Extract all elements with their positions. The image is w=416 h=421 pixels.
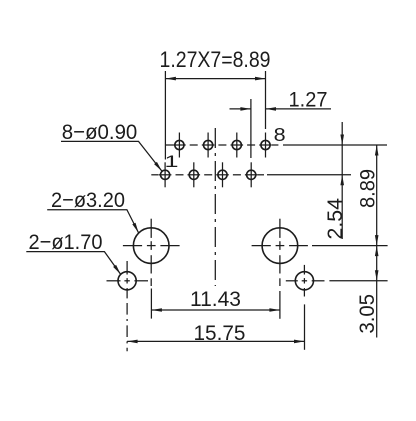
svg-text:15.75: 15.75 [194,321,246,345]
arrowhead dim1 right [255,77,266,81]
mount hole S1 small circle left [107,261,149,298]
pin hole P7 bottom row [245,162,258,187]
extension line pin8 up [265,71,267,129]
pin hole P3 bottom row [188,162,201,187]
pin hole P1 bottom row [159,162,172,187]
dimension 3.05 line [376,246,378,338]
pin hole P8 top row [259,133,272,158]
svg-text:2−ø3.20: 2−ø3.20 [51,188,125,212]
arrowhead 1.27 right (points left) [266,107,277,111]
arrowhead 15.75 right [294,340,305,344]
arrowhead 8.89 bottom (points down) [375,235,379,246]
svg-text:2−ø1.70: 2−ø1.70 [29,230,103,254]
leader 8-dia0.90 [61,141,162,171]
dimension 1.27 line left tail [230,108,251,110]
pin hole P2 top row [173,133,186,158]
arrowhead 2.54 bottom (points up) [340,175,344,186]
svg-text:8: 8 [274,124,286,145]
arrowhead 15.75 left [127,340,138,344]
mount hole B1 big circle left [123,219,180,286]
svg-text:1.27X7=8.89: 1.27X7=8.89 [160,47,271,72]
extension line S2 down [304,304,306,349]
leader 2-dia3.20 [47,210,138,233]
svg-text:3.05: 3.05 [355,294,379,334]
arrowhead 3.05 top (points up) [375,246,379,257]
bottom row centerline dashes [151,174,264,176]
dimension 8.89 line [376,145,378,246]
arrowhead 8.89 top (points up) [375,145,379,156]
leader 2-dia1.70 [26,252,120,275]
extension line big circle row right [312,245,388,247]
S1 centerline extension down [126,303,128,351]
arrowhead leader pin1 [154,162,162,171]
svg-text:1: 1 [165,152,179,171]
arrowhead 1.27 left (points right) [240,107,251,111]
arrowhead 2.54 top (points down) [340,135,344,146]
pin hole P5 bottom row [216,162,229,187]
mount hole S2 small circle right [286,265,325,297]
arrowhead 11.43 left [151,308,162,312]
svg-text:1.27: 1.27 [289,87,328,111]
svg-text:8−ø0.90: 8−ø0.90 [62,120,138,144]
svg-text:8.89: 8.89 [356,169,380,208]
arrowhead 3.05 bottom (points down) [375,270,379,281]
dimension 15.75 line [127,340,304,342]
dimension 2.54 line [341,122,343,239]
mount hole B2 big circle right [252,219,308,286]
arrowhead leader big circle [132,223,138,233]
extension line pin7 up [250,99,252,158]
extension line B1 down [150,289,152,319]
extension line pin1 up [164,71,166,160]
dimension 1.27X7=8.89 line [165,78,265,80]
arrowhead dim1 left [165,77,176,81]
svg-text:11.43: 11.43 [190,287,241,311]
svg-text:2.54: 2.54 [323,198,347,240]
top row centerline dashes [166,144,278,146]
arrowhead 11.43 right [269,308,280,312]
pin hole P6 top row [231,133,244,158]
extension line top pin row right [283,144,387,146]
dimension 11.43 line [151,309,280,311]
arrowhead leader small circle [113,265,121,275]
dimension 1.27 line right [266,108,332,110]
pin hole P4 top row [202,133,215,158]
extension line B2 down [279,291,281,319]
central axis centerline [214,128,216,286]
extension line small circle row right [329,280,387,282]
extension line bottom pin row right [267,174,351,176]
